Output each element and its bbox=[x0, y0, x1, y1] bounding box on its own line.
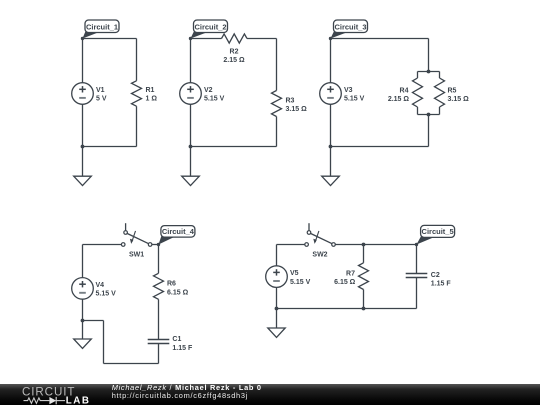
capacitor C2 bbox=[406, 274, 428, 278]
wire top-left circuit4 bbox=[83, 244, 122, 246]
resistor R7 bbox=[359, 263, 369, 290]
wire R6 to C1 circuit4 bbox=[158, 299, 160, 339]
svg-text:R5: R5 bbox=[448, 88, 457, 95]
svg-text:http://circuitlab.com/c6zffg48: http://circuitlab.com/c6zffg48sdh3j bbox=[112, 391, 248, 400]
svg-text:C1: C1 bbox=[172, 336, 181, 343]
node flag Circuit_5 bbox=[415, 225, 455, 246]
wire left-lower circuit5 bbox=[276, 287, 278, 308]
wire left-lower circuit3 bbox=[330, 104, 332, 146]
svg-text:SW1: SW1 bbox=[129, 252, 144, 259]
footer author line bbox=[112, 383, 262, 392]
CircuitLab logo CIRCUIT text bbox=[22, 385, 75, 398]
svg-text:Circuit_1: Circuit_1 bbox=[86, 22, 118, 31]
wire left-lower circuit1 bbox=[82, 104, 84, 146]
junction dot circuit3 bbox=[329, 145, 333, 149]
label R5 3.15 ohm bbox=[448, 88, 470, 104]
svg-text:Circuit_5: Circuit_5 bbox=[422, 227, 454, 236]
svg-text:2.15 Ω: 2.15 Ω bbox=[388, 96, 410, 103]
switch SW1 left throw terminal bbox=[121, 243, 125, 247]
ground circuit1 bbox=[74, 176, 92, 185]
wire left-lower circuit4 bbox=[82, 299, 84, 320]
label V2 5.15 V bbox=[204, 87, 225, 103]
svg-text:5.15 V: 5.15 V bbox=[204, 96, 225, 103]
junction dot circuit4 bbox=[81, 319, 85, 323]
svg-text:R7: R7 bbox=[346, 270, 355, 277]
resistor R4 bbox=[413, 72, 423, 115]
switch SW1 toggle arrow bbox=[132, 231, 136, 242]
junction dot parallel bottom bbox=[427, 113, 431, 117]
svg-text:1.15 F: 1.15 F bbox=[172, 345, 193, 352]
svg-text:Circuit_2: Circuit_2 bbox=[194, 22, 226, 31]
svg-text:C2: C2 bbox=[431, 272, 440, 279]
wire left-upper circuit5 bbox=[276, 245, 278, 266]
voltage source V2 bbox=[180, 83, 202, 105]
switch SW2 toggle arrow bbox=[315, 231, 319, 242]
wire left-upper circuit2 bbox=[190, 39, 192, 83]
wire to junction circuit4 bbox=[83, 320, 104, 322]
node flag Circuit_4 bbox=[157, 226, 195, 247]
label C1 1.15 F bbox=[172, 336, 193, 352]
ground circuit3 bbox=[322, 176, 340, 185]
capacitor C1 bbox=[148, 340, 170, 344]
svg-text:R1: R1 bbox=[146, 87, 155, 94]
ground circuit5 bbox=[268, 328, 285, 337]
label R4 2.15 ohm bbox=[388, 88, 410, 104]
footer url line bbox=[112, 391, 248, 400]
wire bottom circuit1 bbox=[83, 146, 137, 148]
wire left-upper circuit4 bbox=[82, 245, 84, 278]
switch SW2 top throw terminal bbox=[307, 231, 311, 235]
wire switch common to R7 node circuit5 bbox=[335, 244, 363, 246]
junction dot circuit5 bbox=[275, 307, 279, 311]
svg-text:5 V: 5 V bbox=[96, 96, 107, 103]
svg-text:V3: V3 bbox=[344, 87, 353, 94]
switch SW1 top stub wire bbox=[125, 223, 127, 231]
resistor R3 bbox=[272, 91, 282, 117]
svg-text:6.15 Ω: 6.15 Ω bbox=[167, 290, 189, 297]
wire ground stem circuit5 bbox=[276, 309, 278, 329]
junction dot R7 top circuit5 bbox=[362, 243, 366, 247]
switch SW1 blade bbox=[127, 234, 148, 244]
wire top circuit3 bbox=[331, 38, 429, 40]
voltage source V1 bbox=[72, 83, 94, 105]
switch SW2 left throw terminal bbox=[305, 243, 309, 247]
svg-text:3.15 Ω: 3.15 Ω bbox=[286, 106, 308, 113]
svg-text:SW2: SW2 bbox=[312, 252, 327, 259]
wire top-left circuit2 bbox=[191, 38, 222, 40]
label V3 5.15 V bbox=[344, 87, 365, 103]
switch SW1 bbox=[121, 223, 152, 258]
CircuitLab logo LAB text bbox=[66, 395, 91, 406]
wire C1 down circuit4 bbox=[158, 344, 160, 364]
wire top-right circuit2 bbox=[247, 38, 277, 40]
wire top circuit1 bbox=[83, 38, 137, 40]
svg-text:1 Ω: 1 Ω bbox=[146, 96, 158, 103]
wire parallel bottom bar bbox=[418, 114, 440, 116]
svg-text:2.15 Ω: 2.15 Ω bbox=[223, 57, 245, 64]
wire right-lower circuit1 bbox=[136, 106, 138, 146]
wire right-lower circuit2 bbox=[276, 117, 278, 147]
resistor R1 bbox=[132, 81, 142, 106]
junction dot parallel top bbox=[427, 70, 431, 74]
svg-text:R2: R2 bbox=[230, 49, 239, 56]
wire bottom riser circuit4 bbox=[103, 321, 105, 364]
ground circuit2 bbox=[182, 176, 200, 185]
resistor R2 bbox=[222, 34, 248, 43]
svg-text:Circuit_3: Circuit_3 bbox=[334, 22, 366, 31]
svg-text:R6: R6 bbox=[167, 281, 176, 288]
junction dot circuit2 bbox=[189, 145, 193, 149]
wire right-upper circuit3 bbox=[428, 39, 430, 72]
wire corner to R6 circuit4 bbox=[158, 245, 160, 274]
switch SW2 bbox=[305, 223, 336, 258]
label V1 5 V bbox=[96, 87, 107, 103]
resistor R6 bbox=[154, 273, 164, 299]
voltage source V5 bbox=[266, 266, 288, 288]
svg-text:R3: R3 bbox=[286, 98, 295, 105]
wire parallel top bar bbox=[418, 71, 440, 73]
label R7 6.15 ohm bbox=[334, 270, 356, 286]
wire bottom circuit3 bbox=[331, 146, 429, 148]
CircuitLab logo waveform resistor-diode bbox=[24, 397, 66, 404]
svg-text:Circuit_4: Circuit_4 bbox=[162, 227, 195, 236]
wire right-upper circuit2 bbox=[276, 39, 278, 91]
wire R7 node to corner circuit5 bbox=[364, 244, 417, 246]
wire left-upper circuit3 bbox=[330, 39, 332, 83]
wire C2 lower circuit5 bbox=[416, 278, 418, 309]
wire right-lower circuit3 bbox=[428, 115, 430, 147]
voltage source V3 bbox=[320, 83, 342, 105]
wire C2 upper circuit5 bbox=[416, 245, 418, 274]
node flag Circuit_1 bbox=[81, 20, 119, 40]
wire left-upper circuit1 bbox=[82, 39, 84, 83]
ground circuit4 bbox=[74, 339, 92, 348]
svg-text:V5: V5 bbox=[290, 270, 299, 277]
node flag Circuit_2 bbox=[189, 20, 228, 40]
wire ground stem circuit4 bbox=[82, 321, 84, 340]
label R3 3.15 ohm bbox=[286, 98, 308, 114]
label V4 5.15 V bbox=[96, 282, 117, 298]
svg-text:6.15 Ω: 6.15 Ω bbox=[334, 279, 356, 286]
svg-text:5.15 V: 5.15 V bbox=[290, 279, 311, 286]
svg-text:V2: V2 bbox=[204, 87, 213, 94]
switch SW1 top throw terminal bbox=[124, 231, 128, 235]
svg-text:3.15 Ω: 3.15 Ω bbox=[448, 96, 470, 103]
svg-text:V1: V1 bbox=[96, 87, 105, 94]
label C2 1.15 F bbox=[431, 272, 452, 288]
svg-text:R4: R4 bbox=[400, 88, 409, 95]
wire bottom circuit4 bbox=[104, 363, 159, 365]
label R6 6.15 ohm bbox=[167, 281, 189, 297]
label R2 2.15 ohm bbox=[223, 49, 245, 65]
wire bottom circuit5 bbox=[277, 308, 417, 310]
switch SW1 common terminal bbox=[148, 243, 152, 247]
wire right-upper circuit1 bbox=[136, 39, 138, 81]
wire R7 upper circuit5 bbox=[363, 245, 365, 263]
switch SW2 blade bbox=[311, 234, 332, 244]
label V5 5.15 V bbox=[290, 270, 311, 286]
voltage source V4 bbox=[72, 278, 94, 300]
wire left-lower circuit2 bbox=[190, 104, 192, 146]
svg-text:1.15 F: 1.15 F bbox=[431, 281, 452, 288]
node flag Circuit_3 bbox=[329, 20, 368, 40]
wire switch common to corner circuit4 bbox=[152, 244, 159, 246]
switch SW2 top stub wire bbox=[308, 223, 310, 231]
svg-text:5.15 V: 5.15 V bbox=[96, 291, 117, 298]
wire R7 lower circuit5 bbox=[363, 290, 365, 309]
wire ground stem circuit3 bbox=[330, 147, 332, 177]
svg-text:5.15 V: 5.15 V bbox=[344, 96, 365, 103]
switch SW2 common terminal bbox=[332, 243, 336, 247]
label R1 1 ohm bbox=[146, 87, 158, 103]
junction dot circuit1 bbox=[81, 145, 85, 149]
junction dot R7 bottom circuit5 bbox=[362, 307, 366, 311]
wire ground stem circuit2 bbox=[190, 147, 192, 177]
svg-text:LAB: LAB bbox=[66, 395, 91, 405]
wire ground stem circuit1 bbox=[82, 147, 84, 177]
wire top-left circuit5 bbox=[277, 244, 305, 246]
resistor R5 bbox=[435, 72, 445, 115]
wire bottom circuit2 bbox=[191, 146, 277, 148]
svg-text:V4: V4 bbox=[96, 282, 105, 289]
